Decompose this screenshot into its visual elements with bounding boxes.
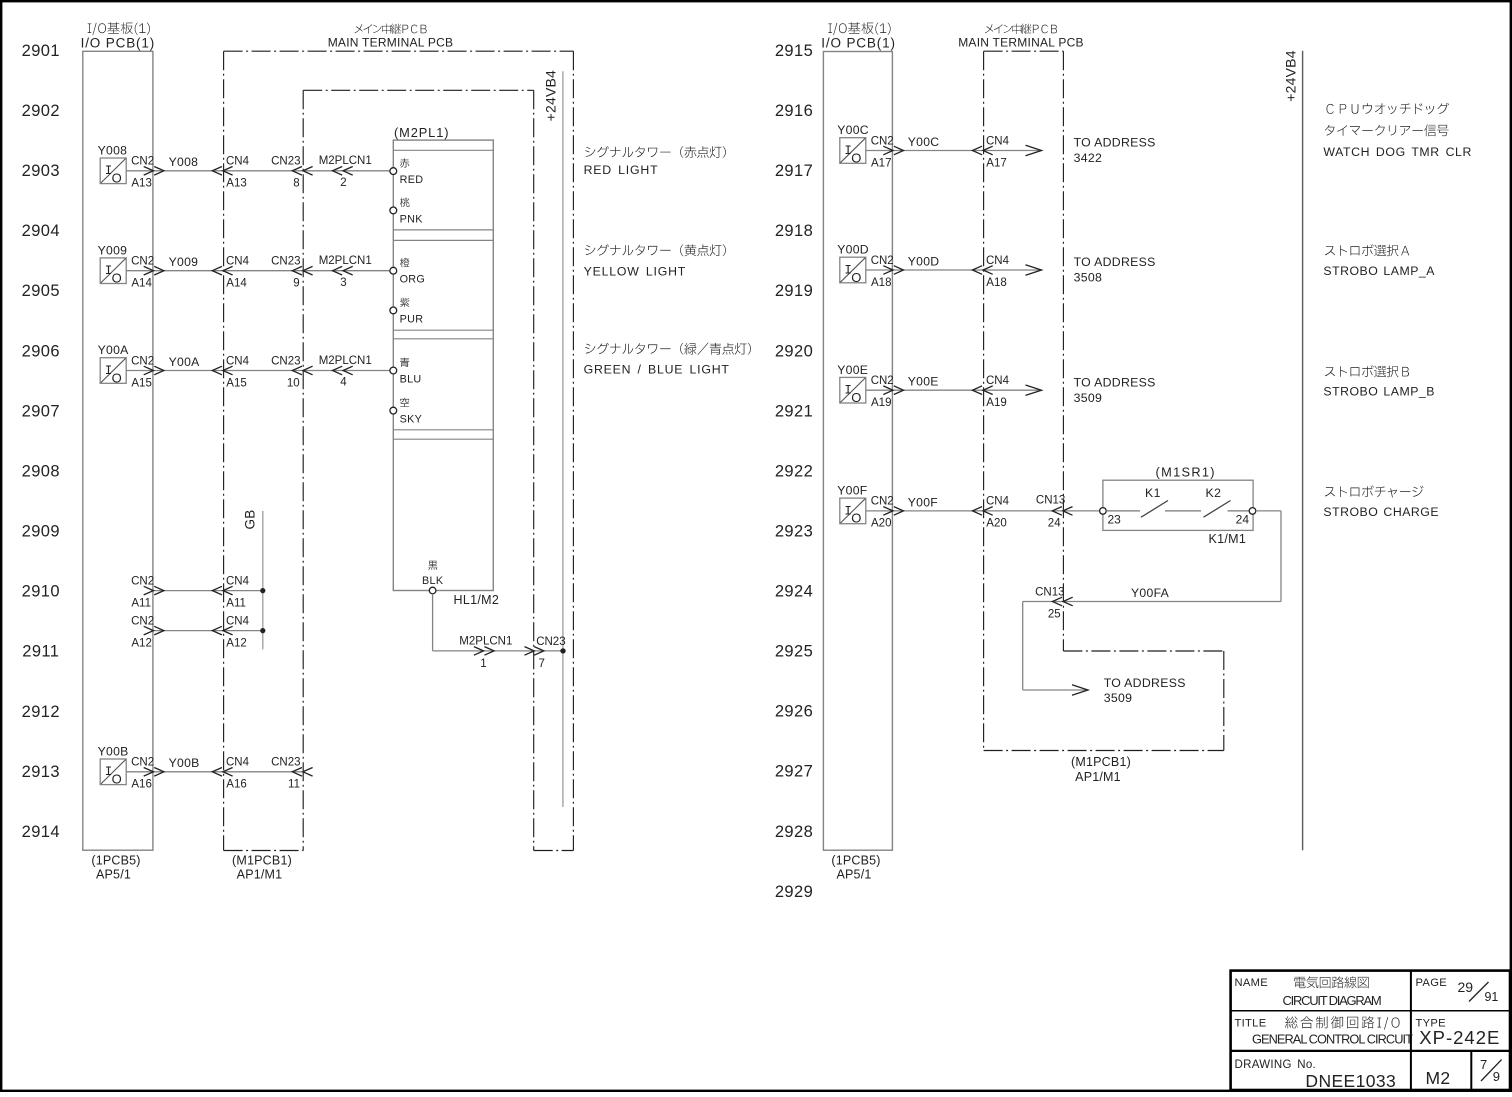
connector crossing CN4 arrows Y00B [212, 768, 232, 777]
sheet 7/9 [1480, 1057, 1502, 1084]
terminal BLK of M2PL1 [429, 587, 436, 594]
connector crossing CN4 arrows A11 [212, 586, 232, 595]
svg-text:3509: 3509 [1104, 691, 1133, 705]
wire Y008 from I/O PCB to M2PL1 terminal [126, 170, 390, 172]
relay terminal 23 [1100, 508, 1107, 515]
signal tower lamp unit M2PL1 outline [393, 140, 493, 590]
I/O output module Y00F [840, 498, 866, 526]
svg-text:AP1/M1: AP1/M1 [237, 868, 283, 882]
svg-text:CN4: CN4 [226, 575, 250, 587]
svg-text:A16: A16 [226, 779, 246, 791]
svg-text:Y00C: Y00C [908, 135, 940, 149]
svg-text:(M2PL1): (M2PL1) [394, 125, 449, 140]
svg-text:STROBO CHARGE: STROBO CHARGE [1323, 505, 1439, 519]
annotation strobe select B [1323, 365, 1435, 398]
svg-text:AP5/1: AP5/1 [836, 868, 871, 882]
svg-text:2917: 2917 [775, 162, 813, 180]
svg-text:A20: A20 [986, 518, 1006, 530]
svg-text:A13: A13 [131, 178, 151, 190]
svg-text:2922: 2922 [775, 462, 813, 480]
wire Y00E [866, 389, 1042, 391]
svg-text:RED: RED [400, 174, 424, 186]
svg-text:I/O PCB(1): I/O PCB(1) [81, 36, 156, 51]
svg-text:29: 29 [1458, 979, 1474, 995]
svg-text:3508: 3508 [1074, 271, 1103, 285]
I/O output module Y00E [840, 377, 866, 405]
svg-text:O: O [112, 772, 122, 787]
cable M2PLCN1 pin 4 [319, 355, 372, 389]
terminal BLU of M2PL1 [390, 367, 397, 374]
connector crossing CN2 arrows Y00E [883, 386, 903, 395]
connector CN4 pin A12 [226, 615, 250, 649]
cable M2PLCN1 pin 1 [459, 636, 512, 670]
cable crossing M2PLCN1 arrows Y008 [333, 167, 353, 176]
svg-text:M2PLCN1: M2PLCN1 [319, 255, 372, 267]
svg-text:4: 4 [340, 377, 347, 389]
svg-text:2901: 2901 [22, 42, 60, 60]
svg-text:2921: 2921 [775, 402, 813, 420]
svg-text:O: O [112, 271, 122, 286]
wire GB A11 [153, 590, 263, 592]
svg-text:CN23: CN23 [271, 757, 300, 769]
svg-text:2907: 2907 [22, 402, 60, 420]
wire Y009 from I/O PCB to M2PL1 terminal [126, 270, 390, 272]
label 電気回路線図 [1294, 976, 1368, 988]
svg-text:O: O [851, 150, 861, 165]
cable M2PLCN1 pin 3 [319, 255, 372, 289]
svg-text:M2PLCN1: M2PLCN1 [319, 355, 372, 367]
svg-text:2903: 2903 [22, 162, 60, 180]
svg-text:CN2: CN2 [131, 757, 154, 769]
svg-text:3422: 3422 [1074, 151, 1103, 165]
svg-text:CN23: CN23 [271, 355, 300, 367]
svg-text:CN23: CN23 [271, 156, 300, 168]
svg-text:CN13: CN13 [1036, 495, 1065, 507]
annotation signal tower red [584, 146, 726, 177]
svg-text:Y008: Y008 [169, 155, 199, 169]
arrow to address 3509 [1026, 385, 1042, 395]
label 紫 PUR [400, 298, 424, 326]
terminal SKY of M2PL1 [390, 407, 397, 414]
svg-text:DNEE1033: DNEE1033 [1305, 1071, 1396, 1091]
svg-text:2920: 2920 [775, 342, 813, 360]
svg-text:3509: 3509 [1074, 391, 1103, 405]
I/O PCB (1PCB5) board outline right [823, 52, 892, 851]
svg-text:O: O [851, 511, 861, 526]
svg-text:MAIN TERMINAL PCB: MAIN TERMINAL PCB [328, 36, 454, 50]
svg-text:GB: GB [243, 509, 258, 529]
page number 29/91 [1458, 979, 1499, 1004]
svg-text:M2PLCN1: M2PLCN1 [459, 636, 512, 648]
svg-text:WATCH DOG TMR CLR: WATCH DOG TMR CLR [1323, 145, 1472, 159]
cable M2PLCN1 pin 2 [319, 155, 372, 189]
svg-text:A15: A15 [226, 377, 246, 389]
wire GB A12 [153, 630, 263, 632]
label +24VB4 left [542, 70, 558, 121]
connector crossing CN2 arrows Y00F [883, 507, 903, 516]
relay unit M1SR1 outline [1103, 480, 1253, 530]
connector crossing CN2 arrows Y008 [144, 167, 164, 176]
connector crossing CN2 arrows Y009 [144, 266, 164, 275]
label 黒 BLK [422, 561, 444, 587]
svg-text:CN4: CN4 [986, 496, 1010, 508]
relay contact K1 [1106, 501, 1168, 518]
svg-text:+24VB4: +24VB4 [1283, 50, 1299, 101]
connector crossing CN4 arrows Y00D [972, 266, 992, 275]
svg-text:10: 10 [287, 377, 300, 389]
connector crossing CN2 arrows A12 [144, 626, 164, 635]
svg-text:2914: 2914 [22, 823, 60, 841]
connector CN2 pin A12 [131, 615, 154, 649]
svg-text:DRAWING No.: DRAWING No. [1235, 1059, 1317, 1071]
svg-text:CIRCUIT DIAGRAM: CIRCUIT DIAGRAM [1282, 993, 1380, 1008]
svg-text:7: 7 [539, 658, 545, 670]
connector CN2 pin A15 [131, 355, 154, 389]
svg-text:2909: 2909 [22, 523, 60, 541]
connector crossing CN23 arrows Y00B [292, 768, 312, 777]
svg-text:2919: 2919 [775, 282, 813, 300]
connector CN2 pin A13 [131, 156, 154, 190]
svg-text:XP-242E: XP-242E [1419, 1027, 1500, 1048]
svg-text:(M1PCB1): (M1PCB1) [232, 853, 292, 867]
I/O output module Y00A [100, 358, 126, 386]
svg-text:Y00E: Y00E [837, 363, 868, 377]
svg-text:GENERAL CONTROL CIRCUIT: GENERAL CONTROL CIRCUIT [1252, 1032, 1413, 1047]
svg-text:A16: A16 [131, 779, 151, 791]
relay terminal 24 [1249, 508, 1256, 515]
connector crossing CN23 arrows Y00A [292, 366, 312, 375]
annotation strobe select A [1323, 244, 1435, 278]
svg-text:2915: 2915 [775, 42, 813, 60]
svg-text:(1PCB5): (1PCB5) [831, 853, 880, 867]
svg-text:M2: M2 [1425, 1068, 1450, 1088]
right margin line numbers 2915-2929 [775, 42, 813, 901]
wire Y00F to relay M1SR1 [1042, 510, 1100, 512]
MAIN TERMINAL PCB boundary box left (M1PCB1) [224, 51, 574, 850]
svg-text:Y00B: Y00B [98, 745, 129, 759]
svg-text:A14: A14 [226, 278, 247, 290]
label TO ADDRESS 3509 [1074, 375, 1156, 405]
+24VB4 power rail left [562, 71, 564, 807]
svg-text:CN2: CN2 [131, 575, 154, 587]
svg-text:2926: 2926 [775, 703, 813, 721]
connector CN2 pin A16 [131, 757, 154, 791]
svg-text:24: 24 [1048, 518, 1061, 530]
svg-text:91: 91 [1484, 990, 1498, 1004]
left margin line numbers 2901-2914 [22, 42, 60, 841]
svg-text:TO ADDRESS: TO ADDRESS [1074, 255, 1156, 269]
svg-text:2929: 2929 [775, 883, 813, 901]
svg-text:2908: 2908 [22, 462, 60, 480]
svg-text:PNK: PNK [400, 213, 424, 225]
svg-text:Y00A: Y00A [98, 343, 130, 357]
connector CN2 pin A18 [871, 255, 894, 289]
cable crossing M2PLCN1 arrows BLK return [474, 647, 494, 656]
label GB [243, 509, 258, 529]
svg-text:CN2: CN2 [871, 135, 894, 147]
svg-text:A12: A12 [226, 637, 246, 649]
svg-text:CN23: CN23 [536, 636, 565, 648]
svg-text:2924: 2924 [775, 583, 813, 601]
wire Y00A from I/O PCB to M2PL1 terminal [126, 370, 390, 372]
label 赤 RED [400, 158, 424, 186]
I/O output module Y00B [100, 759, 126, 787]
svg-text:Y00F: Y00F [837, 484, 867, 498]
connector CN23 pin 11 [271, 757, 300, 791]
svg-text:HL1/M2: HL1/M2 [454, 593, 500, 607]
connector crossing CN2 arrows Y00D [883, 266, 903, 275]
svg-text:11: 11 [288, 779, 300, 791]
svg-text:Y00FA: Y00FA [1131, 586, 1170, 600]
arrow to address 3422 [1026, 145, 1042, 155]
annotation CPU watchdog [1323, 103, 1472, 160]
svg-text:PAGE: PAGE [1416, 977, 1447, 989]
inner cable boundary box M2 left [303, 90, 534, 850]
svg-text:Y009: Y009 [98, 243, 128, 257]
wire Y00F [866, 510, 1042, 512]
connector CN4 pin A18 [986, 255, 1010, 289]
GB net rail [262, 511, 264, 650]
svg-text:2904: 2904 [22, 222, 60, 240]
svg-text:BLU: BLU [400, 373, 422, 385]
connector crossing CN4 arrows Y00C [972, 146, 992, 155]
junction GB A11 [260, 588, 265, 593]
svg-text:K1: K1 [1145, 486, 1161, 500]
svg-text:GREEN / BLUE LIGHT: GREEN / BLUE LIGHT [584, 363, 730, 377]
relay contact K2 [1165, 501, 1249, 518]
connector CN23 pin 9 [271, 256, 300, 290]
svg-text:O: O [112, 171, 122, 186]
+24VB4 power rail right [1302, 51, 1304, 850]
annotation strobe charge [1323, 485, 1439, 518]
label TO ADDRESS 3422 [1074, 136, 1156, 166]
svg-text:STROBO LAMP_B: STROBO LAMP_B [1323, 385, 1435, 399]
connector CN4 pin A11 [226, 575, 250, 609]
connector crossing CN13 arrows Y00F [1052, 507, 1072, 516]
label +24VB4 right [1283, 50, 1299, 101]
terminal RED of M2PL1 [390, 168, 397, 175]
I/O PCB (1PCB5) board outline left [83, 51, 153, 850]
arrow to address 3508 [1026, 265, 1042, 275]
wire BLK return from M2PL1 to +24VB4 rail [433, 594, 563, 651]
svg-text:A18: A18 [986, 277, 1006, 289]
svg-text:Y009: Y009 [169, 255, 199, 269]
svg-text:CN2: CN2 [131, 156, 154, 168]
svg-text:23: 23 [1108, 512, 1122, 526]
svg-text:AP5/1: AP5/1 [96, 868, 131, 882]
svg-text:CN4: CN4 [986, 375, 1010, 387]
connector CN2 pin A17 [871, 135, 894, 169]
svg-text:Y00D: Y00D [837, 243, 869, 257]
svg-text:CN4: CN4 [986, 255, 1010, 267]
svg-text:2910: 2910 [22, 583, 60, 601]
svg-text:3: 3 [340, 277, 346, 289]
svg-text:(M1PCB1): (M1PCB1) [1071, 755, 1131, 769]
connector crossing CN23 arrows BLK return [525, 647, 544, 656]
label I/O基板(1) left [88, 22, 150, 35]
svg-text:O: O [112, 370, 122, 385]
wire Y00D [866, 269, 1042, 271]
connector CN4 pin A16 [226, 757, 250, 791]
wire Y00B [126, 771, 303, 773]
svg-text:STROBO LAMP_A: STROBO LAMP_A [1323, 264, 1435, 278]
svg-text:A19: A19 [871, 397, 891, 409]
svg-text:9: 9 [1493, 1069, 1500, 1084]
connector crossing CN4 arrows Y008 [212, 167, 232, 176]
svg-text:Y00F: Y00F [908, 495, 938, 509]
svg-text:Y00C: Y00C [837, 123, 869, 137]
svg-text:A13: A13 [226, 178, 246, 190]
svg-text:SKY: SKY [400, 414, 423, 426]
terminal ORG of M2PL1 [390, 267, 397, 274]
svg-text:A11: A11 [226, 597, 246, 609]
connector CN4 pin A15 [226, 355, 250, 389]
connector CN2 pin A19 [871, 375, 894, 409]
junction BLK return to +24VB4 rail [560, 648, 565, 653]
connector CN23 pin 8 [271, 156, 300, 190]
connector CN4 pin A13 [226, 156, 250, 190]
I/O output module Y009 [100, 258, 126, 286]
svg-text:CN13: CN13 [1035, 586, 1064, 598]
I/O output module Y008 [100, 158, 126, 186]
svg-text:24: 24 [1236, 512, 1250, 526]
label メイン中継PCB left [355, 24, 427, 35]
svg-text:ORG: ORG [400, 274, 426, 286]
svg-text:Y00D: Y00D [908, 254, 940, 268]
label TO ADDRESS 3508 [1074, 255, 1156, 285]
wire Y00FA from relay down and left [1023, 511, 1281, 690]
label 橙 ORG [400, 258, 426, 286]
svg-text:2902: 2902 [22, 102, 60, 120]
I/O output module Y00C [840, 138, 866, 166]
svg-text:TO ADDRESS: TO ADDRESS [1104, 676, 1186, 690]
svg-text:9: 9 [293, 278, 299, 290]
svg-text:A17: A17 [986, 157, 1006, 169]
svg-text:2906: 2906 [22, 342, 60, 360]
svg-text:A19: A19 [986, 397, 1006, 409]
svg-text:CN4: CN4 [226, 156, 250, 168]
wire Y00C [866, 150, 1042, 152]
connector CN4 pin A17 [986, 135, 1010, 169]
connector CN13 pin 24 [1036, 495, 1065, 530]
svg-text:A20: A20 [871, 518, 891, 530]
svg-text:K1/M1: K1/M1 [1209, 532, 1247, 546]
svg-text:NAME: NAME [1235, 977, 1269, 989]
svg-text:2911: 2911 [22, 643, 59, 661]
svg-text:CN2: CN2 [871, 375, 894, 387]
svg-text:2928: 2928 [775, 823, 813, 841]
connector crossing CN13 arrows Y00FA [1052, 597, 1072, 606]
svg-text:2927: 2927 [775, 763, 813, 781]
MAIN TERMINAL PCB boundary box right (M1PCB1) [984, 51, 1224, 750]
svg-text:I/O PCB(1): I/O PCB(1) [821, 36, 896, 51]
connector crossing CN4 arrows Y00F [972, 507, 992, 516]
svg-text:Y00B: Y00B [169, 756, 200, 770]
label 総合制御回路I/O [1285, 1016, 1400, 1030]
svg-text:8: 8 [293, 178, 299, 190]
label I/O基板(1) right [828, 22, 890, 35]
svg-text:Y008: Y008 [98, 144, 128, 158]
connector crossing CN2 arrows Y00B [144, 768, 164, 777]
svg-text:2912: 2912 [22, 703, 60, 721]
connector CN4 pin A20 [986, 496, 1010, 530]
svg-text:O: O [851, 270, 861, 285]
connector crossing CN4 arrows Y00E [972, 386, 992, 395]
svg-text:CN4: CN4 [226, 757, 250, 769]
svg-text:2923: 2923 [775, 522, 813, 540]
svg-text:CN4: CN4 [226, 615, 250, 627]
connector CN2 pin A14 [131, 256, 154, 290]
svg-text:CN4: CN4 [226, 256, 250, 268]
connector CN2 pin A20 [871, 496, 894, 530]
svg-text:CN2: CN2 [131, 355, 154, 367]
svg-text:7: 7 [1480, 1057, 1487, 1072]
svg-text:TO ADDRESS: TO ADDRESS [1074, 136, 1156, 150]
junction GB A12 [260, 628, 265, 633]
cable crossing M2PLCN1 arrows Y009 [333, 266, 353, 275]
connector crossing CN23 arrows Y008 [292, 167, 312, 176]
label 桃 PNK [400, 198, 424, 226]
svg-text:Y00A: Y00A [169, 355, 201, 369]
svg-text:A12: A12 [131, 637, 151, 649]
annotation signal tower yellow [584, 244, 726, 278]
connector CN2 pin A11 [131, 575, 154, 609]
terminal PNK of M2PL1 [390, 207, 397, 214]
connector crossing CN4 arrows Y009 [212, 266, 232, 275]
svg-text:PUR: PUR [400, 313, 424, 325]
svg-text:A17: A17 [871, 157, 891, 169]
label 空 SKY [400, 398, 423, 426]
svg-text:2913: 2913 [22, 763, 60, 781]
annotation signal tower green/blue [584, 343, 751, 377]
svg-text:K2: K2 [1206, 486, 1222, 500]
svg-text:CN2: CN2 [131, 256, 154, 268]
connector crossing CN23 arrows Y009 [292, 266, 312, 275]
svg-text:CN4: CN4 [226, 355, 250, 367]
svg-text:2925: 2925 [775, 643, 813, 661]
connector crossing CN4 arrows Y00A [212, 366, 232, 375]
svg-text:1: 1 [480, 658, 486, 670]
svg-text:CN4: CN4 [986, 135, 1010, 147]
svg-text:2916: 2916 [775, 102, 813, 120]
connector crossing CN4 arrows A12 [212, 626, 232, 635]
connector CN23 pin 10 [271, 355, 300, 389]
svg-text:CN23: CN23 [271, 256, 300, 268]
connector crossing CN2 arrows Y00C [883, 146, 903, 155]
connector crossing CN2 arrows A11 [144, 586, 164, 595]
svg-text:CN2: CN2 [871, 496, 894, 508]
svg-text:M2PLCN1: M2PLCN1 [319, 155, 372, 167]
connector crossing CN2 arrows Y00A [144, 366, 164, 375]
svg-text:TO ADDRESS: TO ADDRESS [1074, 375, 1156, 389]
I/O output module Y00D [840, 257, 866, 285]
svg-text:AP1/M1: AP1/M1 [1075, 770, 1121, 784]
svg-text:O: O [851, 390, 861, 405]
svg-text:YELLOW LIGHT: YELLOW LIGHT [584, 264, 686, 278]
svg-text:A18: A18 [871, 277, 891, 289]
svg-text:2: 2 [340, 177, 346, 189]
svg-text:CN2: CN2 [871, 255, 894, 267]
svg-text:Y00E: Y00E [908, 375, 939, 389]
arrow to address 3509 lower [1072, 685, 1088, 695]
connector CN4 pin A19 [986, 375, 1010, 409]
title block table [1231, 971, 1510, 1090]
svg-text:A11: A11 [131, 597, 151, 609]
terminal PUR of M2PL1 [390, 307, 397, 314]
svg-text:CN2: CN2 [131, 615, 154, 627]
svg-text:BLK: BLK [422, 575, 444, 587]
connector CN4 pin A14 [226, 256, 250, 290]
